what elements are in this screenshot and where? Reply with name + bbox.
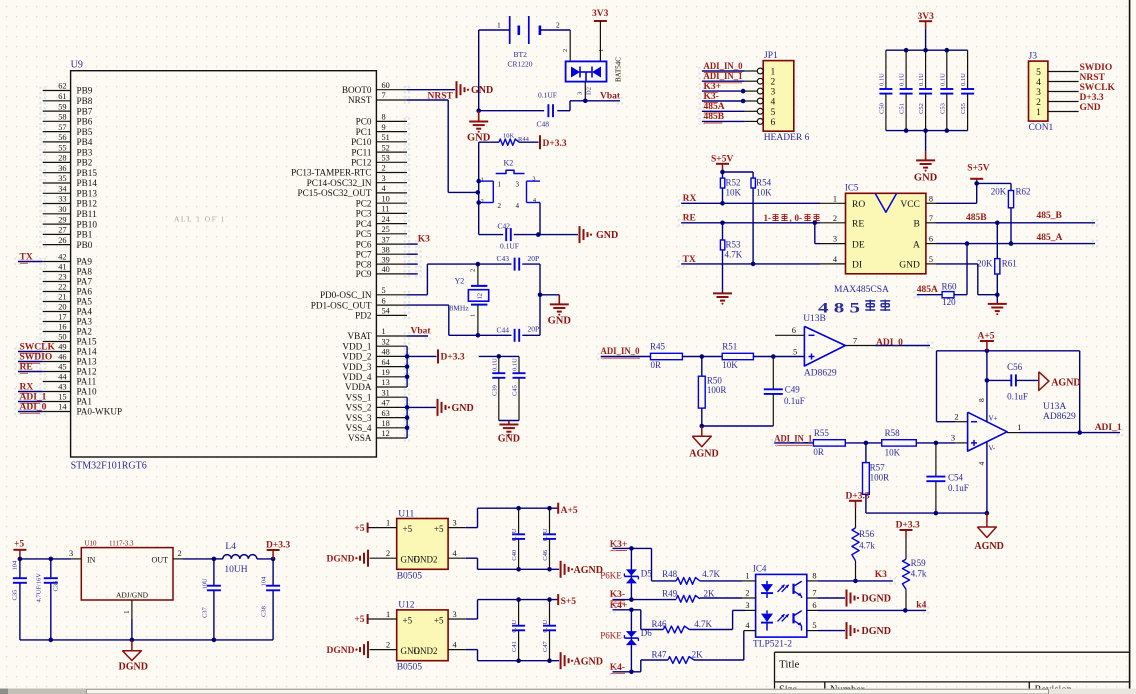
svg-text:C56: C56 xyxy=(1007,362,1023,372)
svg-text:0.1uF: 0.1uF xyxy=(948,483,969,493)
svg-text:C41: C41 xyxy=(511,641,518,652)
svg-text:0.1U: 0.1U xyxy=(511,528,518,541)
svg-text:K3-: K3- xyxy=(610,590,625,600)
svg-text:4: 4 xyxy=(516,202,520,210)
svg-text:39: 39 xyxy=(382,255,390,264)
svg-text:7: 7 xyxy=(382,91,386,100)
svg-text:Vbat: Vbat xyxy=(600,91,621,101)
svg-text:8: 8 xyxy=(929,194,933,203)
svg-text:4.7k: 4.7k xyxy=(859,541,875,551)
svg-text:K3-: K3- xyxy=(704,92,719,102)
svg-text:TLP521-2: TLP521-2 xyxy=(753,640,792,650)
svg-text:VBAT: VBAT xyxy=(348,331,372,341)
svg-text:2: 2 xyxy=(498,202,502,210)
svg-text:0.1uF: 0.1uF xyxy=(784,396,805,406)
svg-text:VSS_3: VSS_3 xyxy=(345,413,371,423)
svg-text:D+3.3: D+3.3 xyxy=(266,540,290,550)
svg-text:1: 1 xyxy=(1036,108,1041,118)
svg-text:DGND: DGND xyxy=(862,626,891,637)
svg-text:PB11: PB11 xyxy=(77,209,97,219)
svg-text:C38: C38 xyxy=(261,606,268,617)
svg-text:2: 2 xyxy=(178,549,182,558)
svg-text:6: 6 xyxy=(792,325,796,335)
svg-text:485_A: 485_A xyxy=(1037,233,1063,243)
svg-text:8: 8 xyxy=(977,398,986,402)
svg-text:51: 51 xyxy=(382,133,390,142)
svg-text:C40: C40 xyxy=(511,550,518,561)
svg-text:PC12: PC12 xyxy=(351,158,372,168)
svg-text:104: 104 xyxy=(11,560,18,571)
svg-text:ADI_0: ADI_0 xyxy=(20,402,47,412)
svg-text:AD8629: AD8629 xyxy=(804,368,837,378)
svg-text:48: 48 xyxy=(382,348,390,357)
svg-text:2: 2 xyxy=(556,21,560,30)
svg-text:PA8: PA8 xyxy=(77,267,93,277)
svg-text:R62: R62 xyxy=(1016,186,1031,196)
svg-text:63: 63 xyxy=(382,409,390,418)
svg-text:32: 32 xyxy=(382,337,390,346)
svg-text:DE: DE xyxy=(852,240,865,250)
svg-text:2: 2 xyxy=(745,589,749,598)
svg-text:Title: Title xyxy=(779,658,800,670)
svg-text:1: 1 xyxy=(745,572,749,581)
svg-text:60: 60 xyxy=(382,81,390,90)
svg-text:D+3.3: D+3.3 xyxy=(441,352,465,362)
svg-text:PC1: PC1 xyxy=(356,127,372,137)
svg-text:+5: +5 xyxy=(403,524,413,534)
svg-text:6: 6 xyxy=(812,601,816,610)
svg-text:V+: V+ xyxy=(989,415,998,423)
svg-text:7: 7 xyxy=(853,336,857,346)
svg-text:1: 1 xyxy=(771,68,776,78)
svg-text:STM32F101RGT6: STM32F101RGT6 xyxy=(71,461,147,472)
svg-text:100R: 100R xyxy=(707,385,727,395)
svg-text:GND2: GND2 xyxy=(414,646,438,656)
svg-text:10K: 10K xyxy=(756,188,772,198)
svg-text:1: 1 xyxy=(386,518,390,527)
svg-text:C50: C50 xyxy=(878,103,885,114)
svg-text:R49: R49 xyxy=(662,588,678,598)
svg-text:U11: U11 xyxy=(398,509,414,519)
svg-text:26: 26 xyxy=(58,236,66,245)
svg-text:10K: 10K xyxy=(726,188,742,198)
svg-text:0-: 0- xyxy=(795,213,803,223)
svg-text:41: 41 xyxy=(58,263,66,272)
svg-text:GND: GND xyxy=(498,434,520,445)
svg-text:59: 59 xyxy=(58,102,66,111)
svg-text:8MHz: 8MHz xyxy=(450,304,470,313)
svg-text:3: 3 xyxy=(1036,88,1041,98)
svg-text:0.1U: 0.1U xyxy=(918,73,925,86)
svg-text:K2: K2 xyxy=(504,159,514,168)
svg-text:485B: 485B xyxy=(966,213,987,223)
svg-text:485B: 485B xyxy=(704,112,725,122)
svg-text:10K: 10K xyxy=(722,360,738,370)
svg-text:PB0: PB0 xyxy=(77,240,93,250)
svg-text:VDDA: VDDA xyxy=(345,382,372,392)
svg-text:GND: GND xyxy=(596,230,618,241)
svg-text:D+3.3: D+3.3 xyxy=(896,520,920,530)
svg-text:GND2: GND2 xyxy=(414,555,438,565)
svg-text:PC7: PC7 xyxy=(356,249,372,259)
svg-text:3: 3 xyxy=(69,549,73,558)
svg-text:9: 9 xyxy=(382,123,386,132)
svg-text:1: 1 xyxy=(598,49,605,52)
svg-text:Y2: Y2 xyxy=(455,276,465,285)
svg-text:52: 52 xyxy=(382,143,390,152)
svg-text:D5: D5 xyxy=(641,569,652,579)
svg-text:PC8: PC8 xyxy=(356,259,372,269)
svg-text:35: 35 xyxy=(58,174,66,183)
svg-text:PD0-OSC_IN: PD0-OSC_IN xyxy=(320,290,372,300)
svg-text:3: 3 xyxy=(771,88,776,98)
svg-text:R50: R50 xyxy=(707,375,723,385)
svg-text:R53: R53 xyxy=(726,240,742,250)
svg-text:PA13: PA13 xyxy=(77,357,97,367)
svg-text:0.1U: 0.1U xyxy=(939,73,946,86)
svg-text:21: 21 xyxy=(58,293,66,302)
svg-text:U12: U12 xyxy=(398,601,415,611)
svg-text:PA11: PA11 xyxy=(77,377,97,387)
svg-text:120: 120 xyxy=(942,297,956,307)
svg-text:1-: 1- xyxy=(764,213,772,223)
svg-text:3V3: 3V3 xyxy=(592,9,609,19)
svg-text:13: 13 xyxy=(382,378,390,387)
svg-text:PB8: PB8 xyxy=(77,96,93,106)
svg-text:ALL 1 OF 1: ALL 1 OF 1 xyxy=(174,215,226,224)
svg-text:BAT54C: BAT54C xyxy=(615,57,623,82)
svg-text:0.1U: 0.1U xyxy=(511,619,518,632)
svg-text:PA2: PA2 xyxy=(77,327,93,337)
svg-text:42: 42 xyxy=(58,253,66,262)
svg-text:2: 2 xyxy=(470,269,477,272)
svg-text:PC13-TAMPER-RTC: PC13-TAMPER-RTC xyxy=(291,168,371,178)
svg-text:10U: 10U xyxy=(202,578,209,590)
svg-text:1: 1 xyxy=(833,194,837,203)
svg-text:4.7K: 4.7K xyxy=(702,569,720,579)
svg-text:12: 12 xyxy=(382,429,390,438)
svg-text:NRST: NRST xyxy=(1080,73,1106,83)
svg-text:J3: J3 xyxy=(1029,52,1038,62)
svg-text:4.7k: 4.7k xyxy=(911,568,927,578)
svg-text:SWCLK: SWCLK xyxy=(20,342,56,352)
svg-text:VDD_4: VDD_4 xyxy=(342,372,371,382)
svg-text:C42: C42 xyxy=(498,221,511,230)
svg-text:0.1U: 0.1U xyxy=(512,358,519,371)
svg-text:DGND: DGND xyxy=(862,594,891,605)
svg-text:PB14: PB14 xyxy=(77,178,98,188)
svg-text:2: 2 xyxy=(382,164,386,173)
svg-text:485A: 485A xyxy=(704,102,725,112)
svg-text:V-: V- xyxy=(989,444,996,452)
svg-text:PC11: PC11 xyxy=(351,147,371,157)
svg-text:PA5: PA5 xyxy=(77,297,93,307)
svg-text:PC6: PC6 xyxy=(356,239,372,249)
svg-text:3: 3 xyxy=(382,174,386,183)
svg-text:53: 53 xyxy=(382,154,390,163)
svg-text:56: 56 xyxy=(58,133,66,142)
svg-text:10K: 10K xyxy=(503,132,515,139)
svg-text:R45: R45 xyxy=(650,341,666,351)
svg-text:3: 3 xyxy=(533,177,536,183)
svg-text:PB2: PB2 xyxy=(77,158,93,168)
svg-text:SWCLK: SWCLK xyxy=(1080,83,1116,93)
svg-text:6: 6 xyxy=(382,296,386,305)
svg-text:PC14-OSC32_IN: PC14-OSC32_IN xyxy=(307,178,372,188)
svg-text:61: 61 xyxy=(58,92,66,101)
svg-text:B0505: B0505 xyxy=(397,663,423,673)
svg-text:C49: C49 xyxy=(785,384,801,394)
svg-text:29: 29 xyxy=(58,215,66,224)
svg-text:R44: R44 xyxy=(518,136,530,143)
svg-text:PD2: PD2 xyxy=(355,311,372,321)
svg-text:PA7: PA7 xyxy=(77,277,93,287)
svg-text:R48: R48 xyxy=(662,569,678,579)
svg-text:K3: K3 xyxy=(875,570,887,580)
svg-text:15: 15 xyxy=(58,393,66,402)
svg-text:0.1U: 0.1U xyxy=(491,358,498,371)
svg-text:PC9: PC9 xyxy=(356,269,372,279)
svg-text:2: 2 xyxy=(1036,98,1041,108)
svg-text:16: 16 xyxy=(58,323,66,332)
svg-text:PA1: PA1 xyxy=(77,397,93,407)
svg-text:10UH: 10UH xyxy=(224,565,247,575)
svg-text:ADI_0: ADI_0 xyxy=(876,338,903,348)
svg-text:R56: R56 xyxy=(859,529,875,539)
svg-text:k4: k4 xyxy=(916,601,926,611)
svg-text:D6: D6 xyxy=(641,628,652,638)
svg-text:C53: C53 xyxy=(939,103,946,114)
svg-text:AGND: AGND xyxy=(689,448,718,459)
svg-text:2K: 2K xyxy=(704,588,716,598)
svg-text:100R: 100R xyxy=(870,473,890,483)
svg-text:GND: GND xyxy=(452,403,474,414)
svg-text:14: 14 xyxy=(58,403,67,412)
svg-text:3: 3 xyxy=(833,235,837,244)
svg-text:C45: C45 xyxy=(512,385,519,396)
svg-text:SWDIO: SWDIO xyxy=(20,352,53,362)
svg-text:+5: +5 xyxy=(434,524,444,534)
svg-text:PB15: PB15 xyxy=(77,168,98,178)
svg-text:5: 5 xyxy=(812,621,816,630)
svg-text:C35: C35 xyxy=(11,590,18,601)
svg-text:DGND: DGND xyxy=(327,555,355,565)
svg-text:PA14: PA14 xyxy=(77,347,97,357)
svg-text:BOOT0: BOOT0 xyxy=(342,85,372,95)
svg-text:50: 50 xyxy=(58,333,66,342)
svg-text:5: 5 xyxy=(793,346,797,356)
svg-text:46: 46 xyxy=(58,353,66,362)
svg-text:SWDIO: SWDIO xyxy=(1080,63,1113,73)
svg-text:PA6: PA6 xyxy=(77,287,93,297)
svg-text:+5: +5 xyxy=(403,615,413,625)
svg-text:0R: 0R xyxy=(651,360,662,370)
svg-text:0.1U: 0.1U xyxy=(878,73,885,86)
svg-text:18: 18 xyxy=(382,419,390,428)
svg-text:PC10: PC10 xyxy=(351,137,372,147)
svg-text:4.7K: 4.7K xyxy=(725,250,743,260)
svg-text:PD1-OSC_OUT: PD1-OSC_OUT xyxy=(311,300,372,310)
svg-text:C43: C43 xyxy=(497,254,510,263)
svg-text:CR1220: CR1220 xyxy=(508,60,533,69)
svg-text:R51: R51 xyxy=(722,341,737,351)
svg-text:CON1: CON1 xyxy=(1029,123,1054,133)
svg-text:C44: C44 xyxy=(497,325,510,334)
svg-text:RX: RX xyxy=(683,194,697,204)
svg-text:3: 3 xyxy=(453,518,457,527)
svg-text:ADI_1: ADI_1 xyxy=(20,392,47,402)
svg-text:44: 44 xyxy=(58,373,67,382)
svg-text:0.1UF: 0.1UF xyxy=(538,91,557,100)
svg-text:IN: IN xyxy=(87,555,96,564)
svg-text:11: 11 xyxy=(382,205,390,214)
svg-text:PA10: PA10 xyxy=(77,387,97,397)
svg-text:4: 4 xyxy=(1036,78,1041,88)
svg-text:1: 1 xyxy=(497,21,501,30)
svg-text:P6KE: P6KE xyxy=(600,630,622,640)
svg-text:58: 58 xyxy=(58,113,66,122)
svg-text:Vbat: Vbat xyxy=(411,327,432,337)
svg-text:4.7UF/16V: 4.7UF/16V xyxy=(36,573,43,603)
svg-text:AGND: AGND xyxy=(1051,377,1080,388)
svg-text:BT2: BT2 xyxy=(514,50,528,59)
svg-text:AGND: AGND xyxy=(574,656,603,667)
svg-text:IC5: IC5 xyxy=(845,182,859,192)
svg-text:7: 7 xyxy=(929,214,933,223)
svg-text:VSS_2: VSS_2 xyxy=(345,403,371,413)
svg-text:A+5: A+5 xyxy=(561,506,578,516)
svg-text:PC15-OSC32_OUT: PC15-OSC32_OUT xyxy=(297,188,371,198)
svg-text:C39: C39 xyxy=(491,385,498,396)
svg-text:AGND: AGND xyxy=(574,565,603,576)
svg-text:30: 30 xyxy=(58,205,66,214)
svg-text:57: 57 xyxy=(58,123,66,132)
svg-text:0.1U: 0.1U xyxy=(542,619,549,632)
svg-text:PC4: PC4 xyxy=(356,219,372,229)
svg-text:RE: RE xyxy=(852,220,864,230)
svg-text:4.7K: 4.7K xyxy=(694,619,712,629)
svg-text:PC3: PC3 xyxy=(356,209,372,219)
svg-text:D+3.3: D+3.3 xyxy=(543,139,567,149)
svg-text:PB9: PB9 xyxy=(77,86,93,96)
svg-text:485_B: 485_B xyxy=(1037,211,1063,221)
svg-text:5: 5 xyxy=(771,108,776,118)
svg-text:ADI_IN_0: ADI_IN_0 xyxy=(601,347,640,357)
svg-text:6: 6 xyxy=(771,118,776,128)
svg-text:33: 33 xyxy=(58,195,66,204)
svg-text:4: 4 xyxy=(771,98,776,108)
svg-text:6: 6 xyxy=(929,235,933,244)
svg-text:43: 43 xyxy=(58,383,66,392)
svg-text:PC0: PC0 xyxy=(356,117,372,127)
svg-text:1: 1 xyxy=(386,610,390,619)
svg-text:MAX485CSA: MAX485CSA xyxy=(834,285,889,295)
svg-text:0R: 0R xyxy=(813,447,824,457)
svg-text:A: A xyxy=(913,240,920,250)
svg-text:5: 5 xyxy=(382,286,386,295)
svg-text:R55: R55 xyxy=(814,428,830,438)
svg-text:S+5: S+5 xyxy=(561,597,577,607)
svg-text:R59: R59 xyxy=(911,558,927,568)
svg-text:C47: C47 xyxy=(542,641,549,653)
svg-text:D+3.3: D+3.3 xyxy=(1080,93,1104,103)
svg-text:PB5: PB5 xyxy=(77,127,93,137)
svg-text:DGND: DGND xyxy=(327,646,355,656)
svg-text:1: 1 xyxy=(122,610,131,614)
svg-text:4 8 5: 4 8 5 xyxy=(818,301,860,317)
svg-text:GND: GND xyxy=(899,261,920,271)
svg-text:1117-3.3: 1117-3.3 xyxy=(109,539,134,547)
svg-text:PB4: PB4 xyxy=(77,137,93,147)
svg-text:U10: U10 xyxy=(85,539,98,547)
svg-text:U9: U9 xyxy=(71,60,83,71)
svg-text:1: 1 xyxy=(1017,422,1021,432)
svg-text:RO: RO xyxy=(852,200,865,210)
svg-text:R61: R61 xyxy=(1002,258,1017,268)
svg-text:PA12: PA12 xyxy=(77,367,97,377)
svg-text:+5: +5 xyxy=(354,615,364,625)
svg-text:U13A: U13A xyxy=(1043,402,1066,412)
svg-text:20K: 20K xyxy=(977,258,993,268)
svg-text:36: 36 xyxy=(58,164,66,173)
svg-text:AD8629: AD8629 xyxy=(1043,412,1076,422)
svg-text:PB12: PB12 xyxy=(77,199,98,209)
svg-text:C55: C55 xyxy=(960,103,967,114)
svg-text:PA3: PA3 xyxy=(77,317,93,327)
svg-text:C36: C36 xyxy=(53,580,60,592)
svg-text:PB3: PB3 xyxy=(77,147,93,157)
svg-text:+5: +5 xyxy=(354,524,364,534)
svg-text:GND: GND xyxy=(471,85,493,96)
svg-text:3: 3 xyxy=(745,601,749,610)
svg-text:PA4: PA4 xyxy=(77,307,93,317)
svg-text:R60: R60 xyxy=(942,281,958,291)
svg-text:20K: 20K xyxy=(991,186,1007,196)
svg-text:PC2: PC2 xyxy=(356,198,372,208)
svg-text:104: 104 xyxy=(261,576,268,587)
svg-text:1: 1 xyxy=(498,180,502,188)
svg-text:B: B xyxy=(914,220,920,230)
svg-text:20P: 20P xyxy=(528,325,540,334)
svg-text:GND: GND xyxy=(548,316,572,327)
svg-text:0.1UF: 0.1UF xyxy=(500,241,519,250)
svg-text:K3: K3 xyxy=(418,234,430,244)
svg-text:45: 45 xyxy=(58,363,66,372)
svg-text:GND: GND xyxy=(1080,103,1101,113)
svg-text:VSS_4: VSS_4 xyxy=(345,423,371,433)
svg-text:S+5V: S+5V xyxy=(967,163,989,173)
svg-text:VDD_2: VDD_2 xyxy=(342,352,371,362)
svg-text:31: 31 xyxy=(382,388,390,397)
svg-text:IC4: IC4 xyxy=(753,564,767,574)
svg-text:55: 55 xyxy=(58,143,66,152)
svg-text:VDD_3: VDD_3 xyxy=(342,362,371,372)
svg-text:L4: L4 xyxy=(225,542,236,552)
svg-text:2: 2 xyxy=(954,412,958,422)
svg-text:20P: 20P xyxy=(528,254,540,263)
svg-text:R46: R46 xyxy=(652,619,668,629)
svg-text:PB1: PB1 xyxy=(77,230,93,240)
svg-text:19: 19 xyxy=(382,368,390,377)
svg-text:C51: C51 xyxy=(899,103,906,114)
svg-text:R52: R52 xyxy=(726,178,741,188)
svg-text:PB6: PB6 xyxy=(77,117,93,127)
svg-text:1: 1 xyxy=(470,314,477,317)
svg-text:HEADER 6: HEADER 6 xyxy=(764,133,810,143)
svg-text:B0505: B0505 xyxy=(397,571,423,581)
svg-text:D2: D2 xyxy=(586,87,593,95)
svg-text:2: 2 xyxy=(771,78,776,88)
